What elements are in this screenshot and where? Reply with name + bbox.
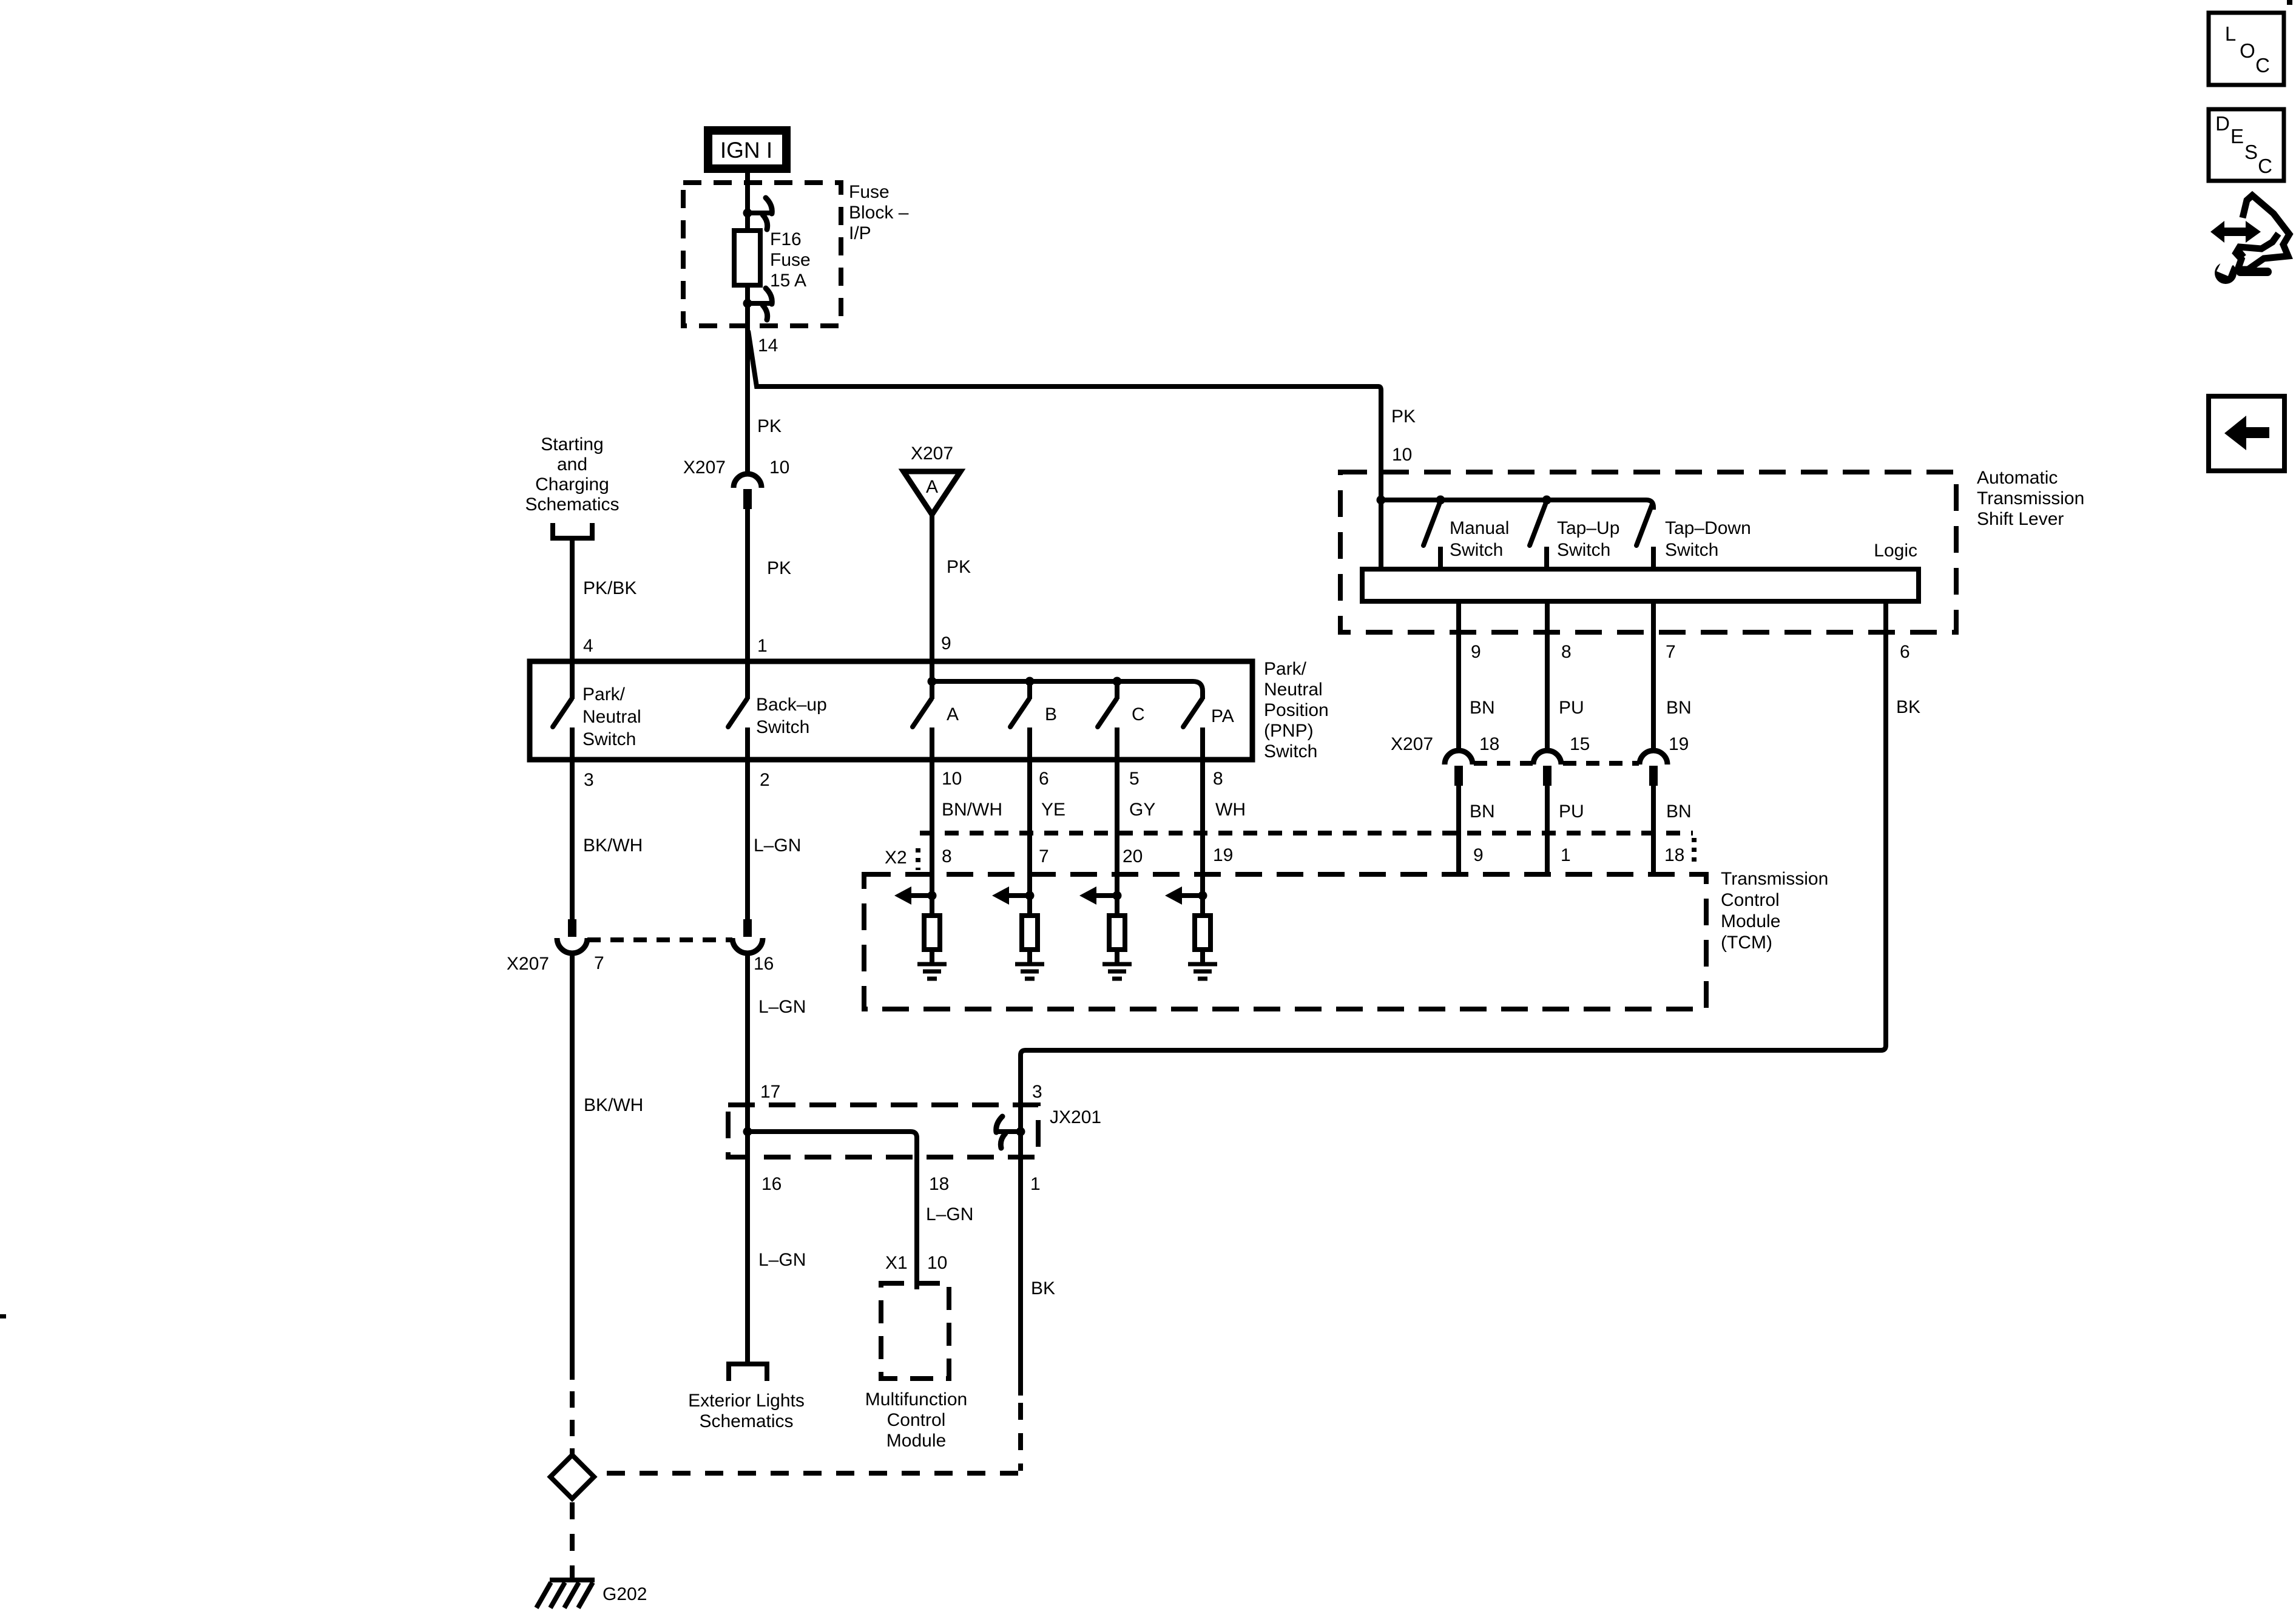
svg-text:15: 15 (1570, 734, 1590, 754)
svg-text:JX201: JX201 (1050, 1107, 1101, 1127)
svg-text:1: 1 (1561, 845, 1571, 865)
svg-text:8: 8 (1561, 642, 1572, 662)
svg-text:Manual: Manual (1450, 518, 1509, 538)
svg-text:PK: PK (757, 416, 782, 436)
svg-text:Transmission: Transmission (1977, 488, 2084, 508)
svg-text:Fuse: Fuse (770, 250, 811, 270)
svg-text:Switch: Switch (1450, 540, 1503, 560)
svg-text:Park/: Park/ (1264, 659, 1307, 679)
svg-text:Neutral: Neutral (582, 707, 641, 727)
svg-text:Park/: Park/ (582, 684, 626, 704)
svg-text:4: 4 (583, 636, 593, 656)
svg-text:18: 18 (1664, 845, 1684, 865)
svg-text:Fuse: Fuse (849, 182, 890, 202)
svg-text:15 A: 15 A (770, 271, 806, 291)
svg-text:X1: X1 (885, 1253, 908, 1273)
svg-text:BK/WH: BK/WH (584, 1095, 643, 1115)
svg-text:Control: Control (1721, 890, 1780, 910)
svg-text:5: 5 (1129, 769, 1140, 789)
svg-text:3: 3 (584, 770, 594, 790)
svg-text:Module: Module (1721, 911, 1780, 931)
svg-text:and: and (557, 454, 587, 474)
svg-text:Switch: Switch (582, 729, 636, 749)
svg-text:10: 10 (1392, 445, 1412, 465)
svg-text:S: S (2244, 141, 2258, 163)
svg-text:IGN I: IGN I (720, 138, 772, 163)
svg-text:19: 19 (1213, 845, 1233, 865)
svg-text:BN: BN (1666, 802, 1692, 822)
svg-text:Module: Module (886, 1431, 946, 1451)
svg-text:PA: PA (1211, 706, 1234, 726)
svg-text:BK: BK (1896, 697, 1920, 717)
svg-text:18: 18 (1479, 734, 1499, 754)
svg-text:Logic: Logic (1874, 541, 1917, 561)
svg-text:(TCM): (TCM) (1721, 933, 1772, 953)
svg-text:Position: Position (1264, 700, 1329, 720)
svg-text:10: 10 (942, 769, 962, 789)
svg-text:Schematics: Schematics (699, 1411, 793, 1431)
svg-text:C: C (2258, 155, 2272, 177)
svg-text:Transmission: Transmission (1721, 869, 1828, 889)
svg-text:17: 17 (760, 1082, 780, 1102)
svg-text:Schematics: Schematics (525, 495, 619, 515)
svg-text:14: 14 (758, 336, 778, 356)
svg-text:Switch: Switch (1264, 741, 1317, 761)
svg-text:L–GN: L–GN (758, 997, 806, 1017)
svg-text:1: 1 (1030, 1174, 1041, 1194)
svg-text:D: D (2215, 112, 2230, 135)
svg-text:Switch: Switch (756, 717, 809, 737)
svg-text:BK: BK (1031, 1278, 1055, 1298)
svg-text:(PNP): (PNP) (1264, 721, 1314, 741)
svg-text:Control: Control (887, 1410, 946, 1430)
svg-text:8: 8 (1213, 769, 1223, 789)
svg-text:L–GN: L–GN (758, 1250, 806, 1270)
svg-text:G202: G202 (603, 1584, 647, 1604)
svg-text:16: 16 (754, 954, 774, 974)
svg-text:Switch: Switch (1557, 540, 1610, 560)
svg-text:L–GN: L–GN (926, 1204, 973, 1224)
svg-text:7: 7 (594, 953, 604, 973)
svg-text:PK: PK (767, 558, 791, 578)
svg-text:Back–up: Back–up (756, 695, 827, 715)
svg-text:9: 9 (1471, 642, 1481, 662)
svg-text:BN: BN (1470, 698, 1495, 718)
svg-text:PK: PK (947, 557, 971, 577)
svg-text:19: 19 (1669, 734, 1689, 754)
svg-text:B: B (1045, 704, 1057, 724)
svg-text:Switch: Switch (1665, 540, 1718, 560)
svg-text:L–GN: L–GN (754, 836, 801, 856)
svg-text:8: 8 (942, 846, 952, 866)
svg-text:BN: BN (1666, 698, 1692, 718)
svg-text:F16: F16 (770, 229, 802, 249)
svg-text:BN: BN (1470, 802, 1495, 822)
svg-text:10: 10 (769, 457, 789, 478)
svg-text:9: 9 (1473, 845, 1484, 865)
svg-text:3: 3 (1032, 1082, 1042, 1102)
svg-text:C: C (1132, 704, 1145, 724)
svg-text:16: 16 (761, 1174, 782, 1194)
svg-text:BK/WH: BK/WH (583, 836, 643, 856)
svg-text:A: A (926, 477, 938, 497)
svg-text:7: 7 (1039, 846, 1049, 866)
svg-text:A: A (947, 704, 959, 724)
svg-text:O: O (2240, 39, 2255, 62)
svg-text:6: 6 (1900, 642, 1910, 662)
svg-text:Charging: Charging (535, 474, 609, 495)
svg-text:PK/BK: PK/BK (583, 578, 636, 598)
svg-text:PK: PK (1391, 407, 1416, 427)
svg-text:Shift Lever: Shift Lever (1977, 509, 2064, 529)
svg-text:C: C (2255, 54, 2270, 76)
svg-text:Tap–Up: Tap–Up (1557, 518, 1619, 538)
svg-text:18: 18 (929, 1174, 949, 1194)
svg-text:1: 1 (757, 636, 768, 656)
svg-text:Starting: Starting (541, 434, 603, 454)
svg-text:6: 6 (1039, 769, 1049, 789)
svg-text:Tap–Down: Tap–Down (1665, 518, 1751, 538)
svg-text:I/P: I/P (849, 223, 871, 243)
svg-text:X207: X207 (1391, 734, 1433, 754)
svg-text:YE: YE (1041, 800, 1065, 820)
svg-text:GY: GY (1129, 800, 1155, 820)
svg-text:X207: X207 (911, 444, 953, 464)
svg-text:BN/WH: BN/WH (942, 800, 1002, 820)
svg-text:WH: WH (1215, 800, 1246, 820)
svg-text:2: 2 (760, 770, 770, 790)
svg-text:Automatic: Automatic (1977, 468, 2058, 488)
svg-text:10: 10 (927, 1253, 947, 1273)
svg-text:PU: PU (1559, 698, 1584, 718)
svg-text:7: 7 (1666, 642, 1676, 662)
svg-text:X2: X2 (885, 848, 907, 868)
svg-text:Multifunction: Multifunction (865, 1389, 967, 1409)
svg-text:Block –: Block – (849, 203, 909, 223)
svg-text:L: L (2225, 22, 2236, 45)
svg-text:X207: X207 (507, 954, 549, 974)
svg-text:PU: PU (1559, 802, 1584, 822)
svg-text:Neutral: Neutral (1264, 680, 1323, 700)
svg-text:Exterior Lights: Exterior Lights (688, 1391, 805, 1411)
svg-text:E: E (2230, 125, 2244, 147)
svg-text:20: 20 (1123, 846, 1143, 866)
svg-text:X207: X207 (683, 457, 726, 478)
svg-text:9: 9 (941, 633, 951, 653)
